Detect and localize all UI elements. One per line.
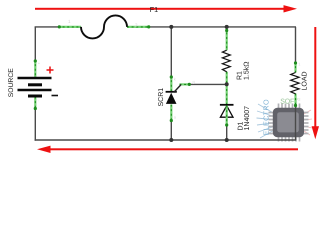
SCR1 gate lead [174,85,181,93]
junction node gate / R1 / D1 [225,82,229,86]
wire SCR branch lower [170,122,172,140]
green wire load top pin [294,61,297,72]
green wire battery top pin [34,59,37,77]
svg-text:LOAD: LOAD [302,71,309,90]
junction node top rail / SCR [169,25,173,29]
junction node bottom rail / D1 [225,138,229,142]
svg-text:g: g [193,79,195,84]
svg-text:R1: R1 [237,71,244,80]
svg-text:k: k [174,77,176,82]
green wire SCR cathode pin [170,75,173,91]
green wire segment top rail after fuse [127,25,150,28]
resistor LOAD zigzag [291,73,299,94]
green wire R1 top pin [225,28,228,51]
battery SOURCE plates [18,78,52,96]
wire left vertical lower [34,110,36,141]
svg-text:SCR1: SCR1 [158,88,165,107]
red current arrow top (pointing right) [35,5,297,12]
watermark chip logo [257,99,313,142]
junction node bottom rail / SCR [169,138,173,142]
diode D1 bar [220,104,234,106]
svg-text:ELECTRO: ELECTRO [262,99,271,135]
green wire D1 bottom pin [225,106,228,127]
wire gate horizontal [190,83,227,85]
svg-text:1N4007: 1N4007 [244,106,251,131]
wire load branch upper [295,27,297,62]
wire bottom rail [35,139,297,141]
wire load branch lower [295,107,297,140]
junction node top rail / R1 [225,25,229,29]
fuse F1 body [81,15,127,38]
red current arrow bottom (pointing left) [37,146,298,153]
wire SCR branch upper [170,27,172,76]
wire left vertical upper [34,27,36,60]
SCR1 triangle [166,93,177,104]
green wire battery bottom pin [34,97,37,111]
svg-text:1.5kΩ: 1.5kΩ [243,62,251,80]
green wire D1 top pin [226,84,228,104]
wire D1 branch lower [226,127,228,141]
battery minus sign [52,95,59,97]
resistor R1 zigzag [222,50,230,72]
svg-text:F1: F1 [150,5,158,14]
svg-text:SOURCE: SOURCE [8,68,15,98]
battery plus sign [47,67,54,74]
green wire SCR anode pin [170,105,173,123]
green wire SCR gate pin [180,83,191,86]
green wire load bottom pin [294,94,297,108]
green wire segment top rail before fuse [58,25,81,28]
green wire R1 bottom pin [226,72,228,85]
red current arrow right side (pointing down) [312,27,319,139]
SCR1 cathode bar [166,91,177,93]
diode D1 triangle [220,106,233,118]
wire top rail left segment [35,26,59,28]
wire top rail right of fuse to top-right corner [150,26,296,28]
